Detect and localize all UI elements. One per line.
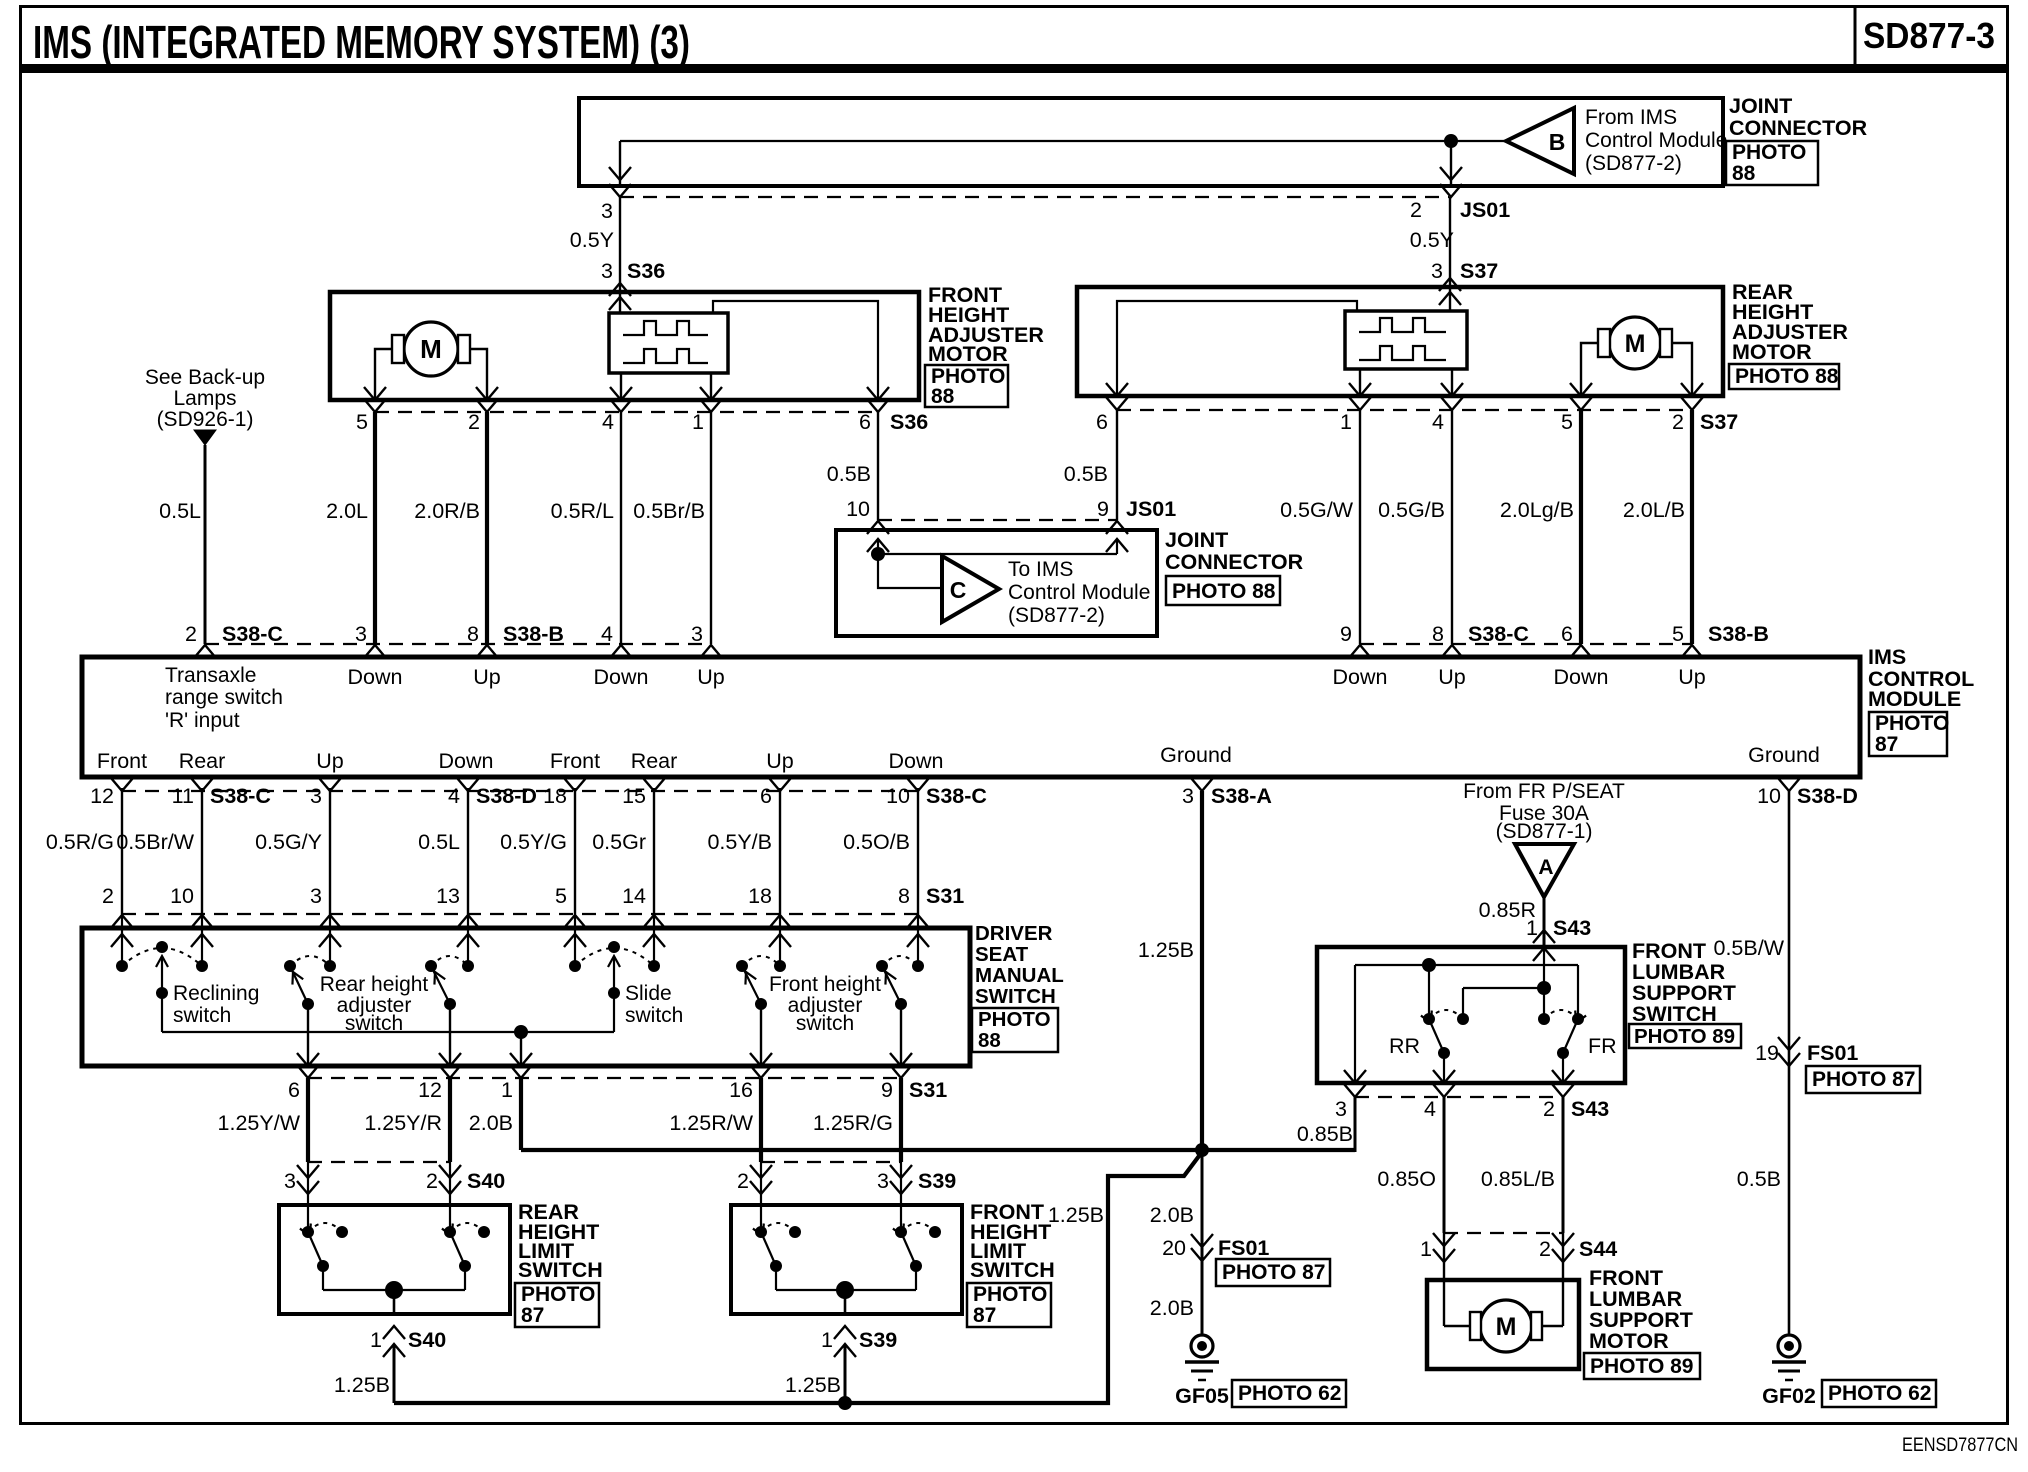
connector chevrons S37 pin 3 — [1439, 278, 1461, 291]
svg-text:88: 88 — [1732, 162, 1756, 185]
connector chevrons S37 pin 2 — [1681, 383, 1703, 396]
svg-text:0.5Br/B: 0.5Br/B — [633, 499, 705, 523]
FR switch contacts — [1538, 1013, 1550, 1025]
svg-text:2.0B: 2.0B — [469, 1111, 513, 1135]
svg-text:'R' input: 'R' input — [165, 709, 240, 732]
svg-text:16: 16 — [729, 1078, 753, 1102]
svg-text:2.0L/B: 2.0L/B — [1623, 498, 1685, 522]
svg-text:S40: S40 — [467, 1169, 505, 1193]
wires into switch contacts — [121, 914, 123, 966]
svg-text:FR: FR — [1588, 1034, 1617, 1058]
wire 0.5B S36 pin6 to JS01 pin10 — [877, 412, 879, 520]
wire from B triangle to left drop — [620, 140, 1506, 142]
svg-text:8: 8 — [467, 622, 479, 646]
svg-text:S36: S36 — [890, 410, 928, 434]
wire 0.5G/Y IMS to S31 pin 3 — [329, 788, 331, 914]
front height adjuster motor box — [330, 292, 919, 400]
svg-text:14: 14 — [622, 884, 646, 908]
IMS control module box — [82, 657, 1860, 777]
svg-text:MOTOR: MOTOR — [1732, 340, 1812, 364]
wire motor M2 left lead to pin 5 — [1581, 343, 1598, 396]
svg-text:3: 3 — [310, 884, 322, 908]
svg-text:Rear height: Rear height — [320, 973, 429, 996]
svg-text:PHOTO 89: PHOTO 89 — [1634, 1025, 1735, 1048]
svg-text:1.25B: 1.25B — [1138, 938, 1194, 962]
svg-text:5: 5 — [1561, 410, 1573, 434]
svg-text:6: 6 — [859, 410, 871, 434]
svg-text:0.5L: 0.5L — [159, 499, 201, 523]
svg-text:3: 3 — [355, 622, 367, 646]
svg-text:1.25R/W: 1.25R/W — [669, 1111, 753, 1135]
wire 1.25B bottom bus — [394, 1152, 1202, 1403]
connector chevrons S36 pin 1 — [700, 387, 722, 400]
title bar separator line — [20, 64, 2008, 73]
svg-text:1.25B: 1.25B — [334, 1373, 390, 1397]
joint connector B box — [579, 98, 1723, 186]
svg-text:A: A — [1538, 856, 1553, 879]
svg-text:S43: S43 — [1571, 1097, 1609, 1121]
wire 1.25Y/R to S40 pin 2 — [448, 1078, 452, 1162]
svg-text:switch: switch — [625, 1004, 683, 1027]
svg-text:0.5Y: 0.5Y — [1410, 228, 1454, 252]
svg-text:Control Module: Control Module — [1585, 129, 1727, 152]
svg-text:Down: Down — [1554, 665, 1609, 689]
motor M3 front lumbar support — [1480, 1300, 1532, 1352]
connector chevrons S36 pin 3 — [609, 283, 631, 296]
wire 1.25B IMS pin3 to ground bus — [1200, 791, 1204, 1150]
svg-text:3: 3 — [1335, 1097, 1347, 1121]
svg-text:S43: S43 — [1553, 916, 1591, 940]
svg-text:2.0Lg/B: 2.0Lg/B — [1500, 498, 1574, 522]
svg-text:0.5Br/W: 0.5Br/W — [116, 830, 194, 854]
joint connector C box — [836, 530, 1157, 636]
connector S40 dashed line — [308, 1161, 450, 1163]
svg-text:RR: RR — [1389, 1034, 1420, 1058]
label box PHOTO 87 rear limit — [515, 1283, 599, 1327]
svg-text:3: 3 — [691, 622, 703, 646]
svg-text:0.5R/G: 0.5R/G — [46, 830, 114, 854]
S40 common bus — [323, 1289, 465, 1291]
svg-text:0.5B: 0.5B — [1737, 1167, 1781, 1191]
connector chevrons S39 pin 2 — [750, 1165, 772, 1178]
wire motor M1 right lead to pin 2 — [470, 349, 487, 400]
svg-text:CONNECTOR: CONNECTOR — [1729, 116, 1868, 140]
connector chevrons S37 pin 4 — [1441, 383, 1463, 396]
svg-text:1: 1 — [370, 1328, 382, 1352]
S39 right switch — [895, 1226, 907, 1238]
svg-text:S39: S39 — [918, 1169, 956, 1193]
connector chevrons JS01 pin 10 — [867, 521, 889, 534]
svg-text:Up: Up — [766, 749, 794, 773]
RR switch contacts — [1423, 1013, 1435, 1025]
svg-text:0.5R/L: 0.5R/L — [551, 499, 614, 523]
svg-text:Down: Down — [439, 749, 494, 773]
connector S38 top dashed line left — [205, 643, 711, 645]
svg-text:FS01: FS01 — [1807, 1041, 1858, 1065]
svg-text:Slide: Slide — [625, 982, 672, 1005]
label box PHOTO 88 front motor — [925, 365, 1008, 407]
svg-text:4: 4 — [1424, 1097, 1436, 1121]
svg-text:10: 10 — [170, 884, 194, 908]
junction node S43 feed — [1537, 981, 1551, 995]
svg-text:S38-B: S38-B — [1708, 622, 1769, 646]
svg-text:Up: Up — [697, 665, 725, 689]
svg-text:10: 10 — [846, 497, 870, 521]
svg-text:2: 2 — [468, 410, 480, 434]
svg-text:M: M — [1625, 330, 1646, 358]
wires into lumbar motor box — [1443, 1233, 1445, 1326]
svg-text:0.5G/Y: 0.5G/Y — [255, 830, 322, 854]
S43 bottom exit chevrons — [1344, 1070, 1366, 1083]
svg-text:6: 6 — [1096, 410, 1108, 434]
rear height adjuster switch left arm — [284, 960, 296, 972]
svg-text:Front height: Front height — [769, 973, 881, 996]
svg-text:Ground: Ground — [1160, 743, 1232, 767]
svg-text:GF02: GF02 — [1762, 1384, 1816, 1408]
svg-text:2.0L: 2.0L — [326, 499, 368, 523]
svg-text:JOINT: JOINT — [1729, 94, 1792, 118]
svg-text:SWITCH: SWITCH — [975, 985, 1056, 1008]
svg-text:Ground: Ground — [1748, 743, 1820, 767]
S39 output wire — [844, 1290, 847, 1314]
svg-text:4: 4 — [1432, 410, 1444, 434]
svg-text:PHOTO: PHOTO — [973, 1283, 1047, 1306]
ground GF02 — [1778, 1335, 1800, 1357]
junction node common bus to pin 1 — [514, 1025, 528, 1039]
wire 0.5L IMS to S31 pin 13 — [467, 788, 469, 914]
wire sensor left output to pin 4 — [620, 373, 622, 400]
wire into C junction — [877, 539, 879, 554]
front height limit switch box — [731, 1205, 962, 1314]
wire 1.25R/G to S39 pin 3 — [899, 1078, 903, 1162]
wire 2.0R/B pin2 to IMS — [485, 412, 489, 644]
svg-text:5: 5 — [555, 884, 567, 908]
off-page triangle to back-up lamps — [194, 430, 216, 445]
svg-text:2: 2 — [1410, 198, 1422, 222]
svg-text:S38-C: S38-C — [926, 784, 987, 808]
position sensor box rear (PWM symbol) — [1345, 311, 1467, 369]
svg-text:0.5G/B: 0.5G/B — [1378, 498, 1445, 522]
connector chevrons S40 pin 1 — [383, 1326, 405, 1339]
S31 bottom exit chevrons — [297, 1053, 319, 1066]
svg-text:S37: S37 — [1460, 259, 1498, 283]
svg-text:SD877-3: SD877-3 — [1863, 15, 1995, 56]
svg-text:S38-D: S38-D — [1797, 784, 1858, 808]
wire 0.85B S43 pin3 to ground bus — [1354, 1097, 1357, 1152]
wire sensor left output to pin 1 rear — [1359, 369, 1361, 396]
svg-text:PHOTO: PHOTO — [521, 1283, 595, 1306]
label box PHOTO 89 lumbar switch — [1629, 1024, 1741, 1048]
svg-text:DRIVER: DRIVER — [975, 922, 1053, 945]
wire 1.25R/W to S39 pin 2 — [759, 1078, 763, 1162]
svg-text:Up: Up — [473, 665, 501, 689]
svg-text:MODULE: MODULE — [1868, 687, 1961, 711]
svg-text:Down: Down — [348, 665, 403, 689]
wire sensor feed jog to pin 6 rear — [1117, 301, 1357, 396]
svg-text:Up: Up — [1678, 665, 1706, 689]
svg-text:IMS (INTEGRATED MEMORY SYSTEM): IMS (INTEGRATED MEMORY SYSTEM) (3) — [33, 16, 690, 68]
label box PHOTO 62 GF05 — [1232, 1380, 1346, 1407]
svg-text:12: 12 — [418, 1078, 442, 1102]
svg-text:S39: S39 — [859, 1328, 897, 1352]
switch common bus wire — [162, 1031, 614, 1033]
label box PHOTO 87 front limit — [967, 1283, 1051, 1327]
connector chevrons S43 pin 1 — [1533, 930, 1555, 943]
rear height limit switch box — [279, 1205, 510, 1314]
connector chevrons S40 pin 3 — [297, 1165, 319, 1178]
svg-text:18: 18 — [748, 884, 772, 908]
S39 common bus — [776, 1289, 916, 1291]
triangle connector A — [1515, 844, 1574, 897]
internal wire upper rail — [1355, 964, 1578, 966]
connector chevrons S40 pin 2 — [439, 1165, 461, 1178]
position sensor box front (PWM symbol) — [609, 313, 728, 373]
svg-text:2: 2 — [1543, 1097, 1555, 1121]
svg-text:S38-B: S38-B — [503, 622, 564, 646]
S39 left switch — [755, 1226, 767, 1238]
connector chevrons S44 pin 1 — [1433, 1233, 1455, 1246]
label box PHOTO 89 lumbar motor — [1584, 1353, 1700, 1379]
wire 0.5Br/W IMS to S31 pin 10 — [201, 788, 203, 914]
wire 0.85L/B S43 pin2 to S44 pin2 — [1562, 1097, 1565, 1233]
svg-text:S37: S37 — [1700, 410, 1738, 434]
connector chevrons S36 pin 4 — [610, 387, 632, 400]
connector chevrons S39 pin 1 — [834, 1326, 856, 1339]
svg-text:0.85O: 0.85O — [1377, 1167, 1436, 1191]
motor M1 front height adjuster — [404, 322, 458, 376]
internal wire lower rail — [1463, 987, 1544, 989]
wire sensor right output to pin 1 — [710, 373, 712, 400]
svg-text:3: 3 — [284, 1169, 296, 1193]
svg-text:0.5B: 0.5B — [1064, 462, 1108, 486]
connector chevrons FS01 pin 19 — [1778, 1037, 1800, 1050]
svg-text:87: 87 — [521, 1304, 544, 1327]
svg-text:Lamps: Lamps — [173, 387, 236, 410]
reclining switch arm — [161, 958, 163, 993]
svg-text:1: 1 — [821, 1328, 833, 1352]
svg-text:(SD877-1): (SD877-1) — [1496, 820, 1593, 843]
wire 0.5Br/B pin1 to IMS — [710, 412, 712, 644]
connector chevrons S44 pin 2 — [1552, 1233, 1574, 1246]
wire 1.25B from S39 — [844, 1344, 847, 1403]
front height left pole wire to S31 pin 16 — [760, 1004, 762, 1066]
connector chevrons S37 pin 1 — [1349, 383, 1371, 396]
svg-text:0.5Y/B: 0.5Y/B — [707, 830, 772, 854]
svg-text:1: 1 — [1420, 1237, 1432, 1261]
S40 right switch — [444, 1226, 456, 1238]
svg-text:3: 3 — [310, 784, 322, 808]
svg-text:PHOTO 88: PHOTO 88 — [1735, 365, 1839, 388]
label box PHOTO 88 rear motor — [1729, 364, 1839, 389]
svg-text:To IMS: To IMS — [1008, 558, 1073, 581]
svg-text:3: 3 — [1182, 784, 1194, 808]
wire 0.85R fuse to S43 pin 1 — [1543, 897, 1546, 947]
svg-text:4: 4 — [448, 784, 460, 808]
wire 2.0L/B pin2 to IMS — [1690, 410, 1694, 644]
svg-text:2.0B: 2.0B — [1150, 1296, 1194, 1320]
svg-text:2: 2 — [102, 884, 114, 908]
svg-text:3: 3 — [601, 199, 613, 223]
front lumbar support motor box — [1427, 1280, 1579, 1369]
svg-text:3: 3 — [601, 259, 613, 283]
svg-text:11: 11 — [172, 784, 194, 808]
svg-text:SWITCH: SWITCH — [518, 1258, 603, 1282]
svg-text:0.5L: 0.5L — [418, 830, 460, 854]
svg-text:S38-D: S38-D — [476, 784, 537, 808]
svg-text:6: 6 — [760, 784, 772, 808]
ground bus wire 2.0B horizontal — [521, 1148, 1355, 1152]
wires into S39 box — [760, 1162, 762, 1232]
junction node S39 to bus — [838, 1396, 852, 1410]
triangle connector B — [1506, 108, 1574, 174]
svg-text:3: 3 — [1431, 259, 1443, 283]
connector chevrons S36 pin 2 — [476, 387, 498, 400]
svg-text:87: 87 — [973, 1304, 996, 1327]
slide switch arm — [613, 958, 615, 993]
svg-text:SWITCH: SWITCH — [970, 1258, 1055, 1282]
connector S39 dashed line — [761, 1161, 901, 1163]
driver seat manual switch box — [82, 928, 970, 1066]
wire S43 pin1 internal — [1543, 948, 1545, 1019]
svg-text:PHOTO 88: PHOTO 88 — [1172, 580, 1276, 603]
label box PHOTO 87 IMS — [1869, 712, 1947, 756]
svg-text:JS01: JS01 — [1126, 497, 1176, 521]
svg-text:19: 19 — [1755, 1041, 1779, 1065]
svg-text:PHOTO 89: PHOTO 89 — [1590, 1355, 1693, 1378]
svg-text:6: 6 — [288, 1078, 300, 1102]
label box PHOTO 62 GF02 — [1822, 1380, 1936, 1407]
svg-text:MOTOR: MOTOR — [1589, 1329, 1669, 1353]
IMS top pin connector tents — [194, 645, 216, 658]
wire 0.5Y right JS01 to S37 — [1449, 197, 1451, 311]
junction node on B wire — [1444, 134, 1458, 148]
wire sensor right output to pin 4 rear — [1451, 369, 1453, 396]
svg-text:GF05: GF05 — [1175, 1384, 1229, 1408]
svg-text:13: 13 — [436, 884, 460, 908]
svg-text:MANUAL: MANUAL — [975, 964, 1064, 987]
connector chevrons S36 pin 6 — [867, 387, 889, 400]
svg-text:1.25Y/W: 1.25Y/W — [218, 1111, 301, 1135]
wire 0.5Y/G IMS to S31 pin 5 — [574, 788, 576, 914]
svg-text:(SD877-2): (SD877-2) — [1008, 604, 1105, 627]
svg-text:0.85L/B: 0.85L/B — [1481, 1167, 1555, 1191]
wire drop to JS01 pin 2 — [1450, 141, 1452, 186]
svg-text:S31: S31 — [909, 1078, 947, 1102]
wire 0.85O S43 pin4 to S44 pin1 — [1443, 1097, 1446, 1233]
motor M2 rear height adjuster — [1609, 317, 1661, 369]
wire 0.5L to IMS pin2 — [204, 445, 207, 644]
svg-text:CONNECTOR: CONNECTOR — [1165, 550, 1304, 574]
wire 0.5O/B IMS to S31 pin 8 — [917, 788, 919, 914]
S31 top connector chevrons — [111, 915, 133, 928]
label box PHOTO 88 — [1726, 141, 1818, 185]
svg-text:S38-C: S38-C — [1468, 622, 1529, 646]
wire 0.5Y/B IMS to S31 pin 18 — [779, 788, 781, 914]
label box PHOTO 87 FS01 19 — [1806, 1066, 1920, 1093]
svg-text:8: 8 — [898, 884, 910, 908]
svg-text:Front: Front — [97, 749, 147, 773]
wire 0.5B/W IMS pin10 to FS01 pin 19 — [1788, 791, 1791, 1335]
svg-text:JS01: JS01 — [1460, 198, 1510, 222]
svg-text:2.0B: 2.0B — [1150, 1203, 1194, 1227]
label box PHOTO 88 seat switch — [972, 1008, 1058, 1052]
wire 0.5R/G IMS to S31 pin 2 — [121, 788, 123, 914]
svg-text:9: 9 — [881, 1078, 893, 1102]
svg-text:0.5Gr: 0.5Gr — [592, 830, 646, 854]
svg-text:3: 3 — [877, 1169, 889, 1193]
connector chevrons S37 pin 5 — [1570, 383, 1592, 396]
wire motor M2 right lead to pin 2 — [1672, 343, 1692, 396]
connector S38 bottom dashed line — [122, 790, 918, 792]
wire sensor feed jog to pin 6 — [713, 301, 878, 400]
RR switch arm — [1429, 1019, 1444, 1053]
svg-text:88: 88 — [978, 1029, 1001, 1052]
S40 left switch — [302, 1226, 314, 1238]
svg-text:S40: S40 — [408, 1328, 446, 1352]
connector JS01 lower dashed line (pins 10,9) — [878, 519, 1117, 521]
junction node C — [871, 547, 885, 561]
svg-text:6: 6 — [1561, 622, 1573, 646]
junction node ground bus — [1195, 1143, 1209, 1157]
svg-text:0.5Y: 0.5Y — [570, 228, 614, 252]
svg-text:Up: Up — [1438, 665, 1466, 689]
svg-text:S38-A: S38-A — [1211, 784, 1272, 808]
svg-text:5: 5 — [1672, 622, 1684, 646]
svg-text:4: 4 — [602, 410, 614, 434]
svg-text:9: 9 — [1097, 497, 1109, 521]
rear height left pole wire to S31 pin 6 — [307, 1004, 309, 1066]
wire 0.5B S37 pin6 to JS01 pin9 — [1116, 410, 1118, 520]
svg-text:(SD926-1): (SD926-1) — [157, 408, 254, 431]
wires into S40 box — [307, 1162, 309, 1232]
connector chevrons JS01 pin 2 top — [1440, 167, 1462, 180]
connector chevrons S39 pin 3 — [890, 1165, 912, 1178]
svg-text:PHOTO 62: PHOTO 62 — [1238, 1382, 1341, 1405]
wire 0.5Gr IMS to S31 pin 14 — [653, 788, 655, 914]
svg-text:5: 5 — [356, 410, 368, 434]
svg-text:SEAT: SEAT — [975, 943, 1029, 966]
svg-text:88: 88 — [931, 385, 955, 408]
wire 2.0Lg/B pin5 to IMS — [1579, 410, 1583, 644]
wire 2.0B to FS01 — [1201, 1150, 1204, 1335]
svg-text:0.5Y/G: 0.5Y/G — [500, 830, 567, 854]
svg-text:1.25R/G: 1.25R/G — [813, 1111, 893, 1135]
svg-text:Down: Down — [889, 749, 944, 773]
svg-text:EENSD7877CN: EENSD7877CN — [1902, 1435, 2018, 1456]
svg-text:1.25B: 1.25B — [1048, 1203, 1104, 1227]
front height adjuster switch right arm — [876, 960, 888, 972]
connector S31 bottom dashed line — [308, 1077, 901, 1079]
triangle connector C — [942, 556, 999, 622]
connector chevrons FS01 pin 20 — [1191, 1234, 1213, 1247]
svg-text:1: 1 — [1340, 410, 1352, 434]
ground GF05 — [1191, 1335, 1213, 1357]
svg-text:From IMS: From IMS — [1585, 106, 1677, 129]
svg-text:Up: Up — [316, 749, 344, 773]
svg-text:PHOTO: PHOTO — [978, 1008, 1051, 1031]
IMS bottom pin connector tents — [111, 778, 133, 791]
svg-text:Down: Down — [1333, 665, 1388, 689]
svg-text:MOTOR: MOTOR — [928, 342, 1008, 366]
connector S38 top dashed line right — [1360, 643, 1692, 645]
connector chevrons JS01 pin 9 — [1106, 521, 1128, 534]
reclining switch contacts and arc — [116, 960, 128, 972]
label box PHOTO 88 joint connector C — [1166, 576, 1280, 605]
svg-text:Front: Front — [550, 749, 600, 773]
svg-text:PHOTO: PHOTO — [1732, 141, 1806, 164]
svg-text:B: B — [1549, 129, 1566, 155]
svg-text:Rear: Rear — [179, 749, 226, 773]
